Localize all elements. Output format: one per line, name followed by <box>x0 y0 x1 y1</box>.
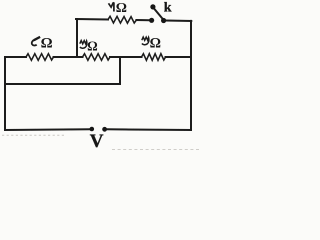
value label 3Ω (right): Persian digit ۳ <box>142 37 149 45</box>
wire: top branch from switch pivot to right edge <box>166 20 191 22</box>
switch k pivot contact dot <box>161 18 166 23</box>
svg-text:Ω: Ω <box>150 35 161 51</box>
battery V right terminal dot <box>102 127 107 132</box>
svg-text:Ω: Ω <box>116 1 127 16</box>
svg-text:Ω: Ω <box>41 35 53 51</box>
switch k lever free-end dot <box>150 4 155 9</box>
wire: middle row right segment <box>166 56 192 58</box>
node B: junction down, vertical connector x=120 <box>119 57 121 84</box>
resistor R4 4Ω zigzag <box>108 16 137 23</box>
resistor R1 6Ω zigzag <box>26 54 54 61</box>
wire: middle row between 3Ω and 3Ω <box>110 56 142 58</box>
switch k lever <box>153 8 163 20</box>
value label 6Ω: Persian digit ۶ <box>32 37 40 46</box>
svg-text:V: V <box>90 131 104 152</box>
resistor R3 3Ω (right) zigzag <box>142 54 166 61</box>
node A: junction to top branch, vertical connector up <box>76 19 78 57</box>
switch k left contact dot <box>149 18 154 23</box>
wire: bottom row right of battery <box>107 128 192 131</box>
scan artifact faint dotted line <box>2 134 64 136</box>
scan artifact faint dotted line bottom-right <box>112 149 199 151</box>
wire: middle row between 6Ω and 3Ω <box>54 56 83 58</box>
value label 3Ω (middle): Persian digit ۳ <box>80 41 87 49</box>
wire: right edge vertical <box>190 21 192 130</box>
value label 4Ω: Persian digit ۴ <box>109 2 115 11</box>
svg-text:k: k <box>164 0 172 15</box>
wire: left edge vertical <box>4 57 6 130</box>
wire: top branch to switch left contact <box>136 19 149 21</box>
wire: top branch left segment (tilted like scan) <box>76 16 191 25</box>
battery V left terminal dot <box>90 127 95 132</box>
wire: lower shorting wire <box>5 83 120 85</box>
svg-text:Ω: Ω <box>87 38 98 53</box>
wire: bottom row left of battery <box>5 128 91 131</box>
resistor R2 3Ω (middle) zigzag <box>83 54 111 61</box>
wire: middle row left segment <box>5 56 26 58</box>
